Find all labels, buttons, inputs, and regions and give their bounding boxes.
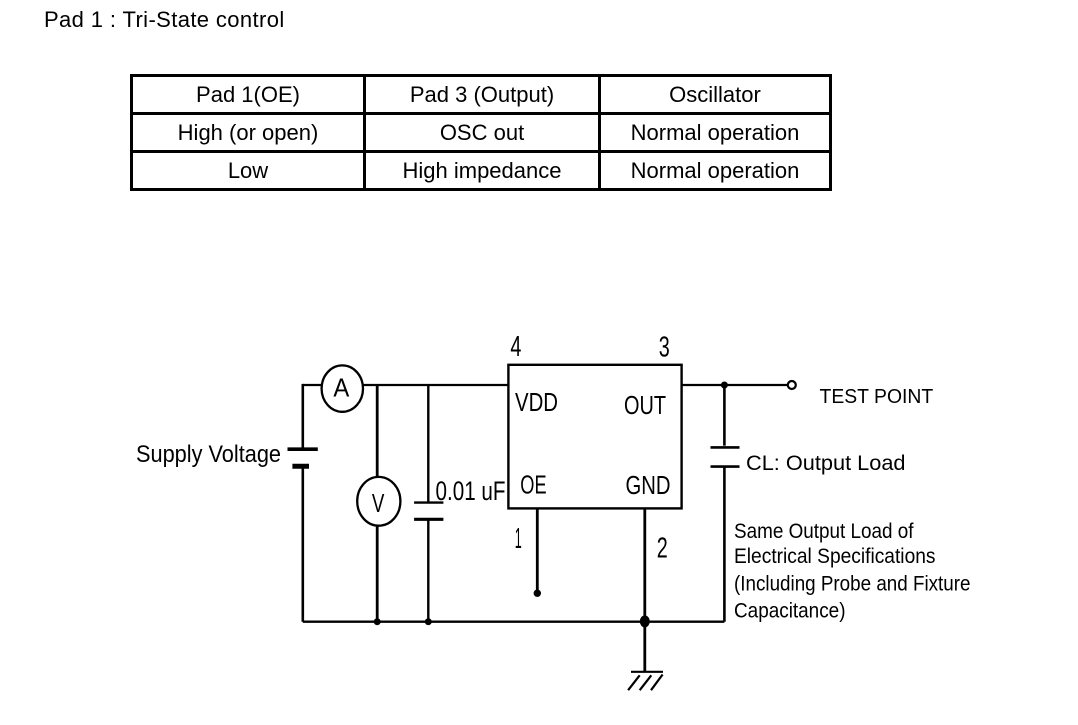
- svg-text:A: A: [333, 372, 350, 402]
- table: tri-state truth table: [130, 74, 832, 191]
- capacitor C1 top plate: [414, 501, 443, 503]
- svg-text:2: 2: [657, 533, 668, 565]
- wire: CL bottom to bottom rail: [723, 467, 726, 622]
- svg-text:CL: Output Load: CL: Output Load: [746, 452, 906, 475]
- wire: ammeter to IC VDD pin: [362, 384, 508, 386]
- svg-text:3: 3: [659, 332, 670, 364]
- svg-text:OE: OE: [520, 470, 546, 500]
- node: junction dot capacitor C1/bottom rail: [425, 618, 432, 625]
- battery BT1 short plate: [292, 464, 309, 469]
- wire: capacitor C1 bottom to bottom rail: [427, 519, 429, 621]
- svg-text:TEST POINT: TEST POINT: [820, 386, 934, 408]
- svg-text:V: V: [372, 488, 385, 518]
- title: Pad 1 : Tri-State control: [44, 7, 285, 33]
- ground symbol bar: [631, 671, 663, 673]
- node: pin 1 open-end dot: [534, 590, 541, 597]
- node: junction dot voltmeter/bottom rail: [374, 618, 381, 625]
- node: junction dot on OUT wire: [721, 382, 728, 389]
- wire: pin 1 (OE) stub: [536, 509, 539, 590]
- IC U1 box: [508, 365, 681, 509]
- ground symbol slash 1: [628, 675, 640, 690]
- svg-text:(Including Probe and Fixture: (Including Probe and Fixture: [734, 573, 971, 596]
- terminal: test point open circle: [788, 381, 796, 389]
- svg-text:4: 4: [510, 331, 521, 363]
- capacitor C1 bottom plate: [414, 518, 443, 521]
- wire: pin 2 (GND) down to bottom rail: [643, 509, 646, 622]
- svg-text:Supply Voltage: Supply Voltage: [136, 441, 281, 468]
- wire: voltmeter branch from top rail: [376, 385, 379, 478]
- svg-text:GND: GND: [626, 470, 671, 500]
- wire: capacitor C1 branch from top rail: [427, 385, 429, 502]
- wire: voltmeter bottom to bottom rail: [376, 526, 379, 622]
- svg-text:Electrical Specifications: Electrical Specifications: [734, 545, 936, 568]
- capacitor CL bottom plate: [711, 465, 740, 468]
- svg-text:1: 1: [515, 523, 522, 555]
- wire: battery bottom down to bottom rail: [301, 467, 304, 622]
- svg-text:Same Output Load of: Same Output Load of: [734, 520, 914, 543]
- capacitor CL top plate: [711, 446, 740, 449]
- battery BT1 (Supply Voltage) long plate: [288, 447, 318, 451]
- svg-text:0.01 uF: 0.01 uF: [436, 476, 506, 506]
- wire: ground stem: [643, 622, 646, 672]
- wire: OUT pin to test point: [682, 384, 788, 386]
- wire: CL branch from junction down: [723, 385, 726, 446]
- ammeter A1 circle: [322, 365, 363, 411]
- svg-text:VDD: VDD: [515, 387, 558, 417]
- voltmeter V1 circle: [357, 477, 400, 526]
- node: junction dot GND pin/bottom rail: [640, 615, 650, 627]
- ground symbol slash 2: [640, 675, 652, 690]
- wire: top-left horizontal into ammeter: [303, 384, 323, 386]
- ground symbol slash 3: [651, 675, 663, 691]
- svg-text:Capacitance): Capacitance): [734, 599, 846, 622]
- svg-text:OUT: OUT: [624, 390, 666, 420]
- wire: bottom rail: [303, 621, 725, 623]
- wire: left vertical, top corner down to battery: [301, 384, 304, 448]
